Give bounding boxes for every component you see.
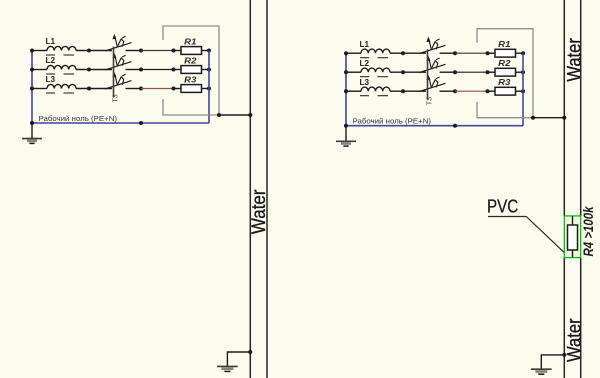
wire block2 L2 switch to node [440, 71, 456, 73]
breaker pole block1 L1: actuator arrow [115, 36, 117, 46]
breaker pole block1 L2: release hook [118, 58, 124, 66]
svg-text:T3: T3 [427, 97, 434, 105]
wire block1 R1 to blue bus [202, 50, 210, 52]
breaker linkage bar block2 [427, 49, 429, 99]
wire block2 L3 mid segment [455, 90, 488, 92]
wire block1 R2 to blue bus [202, 69, 210, 71]
core dash 1 of block1 L2 [46, 73, 55, 75]
junction block1 L3 before resistor [172, 87, 176, 91]
wire block2 bracket to pipe [533, 117, 564, 119]
wire block2 L3 to resistor [488, 90, 496, 92]
junction block2 R3 right [521, 89, 525, 93]
core dash 1 of block2 L3 [360, 95, 369, 97]
svg-text:R4 >100k: R4 >100k [581, 205, 596, 256]
wire block2 L1 to resistor [488, 52, 496, 54]
core dash 2 of block2 L3 [378, 95, 389, 97]
svg-text:L1: L1 [360, 39, 370, 49]
junction block1 L1 at bus [30, 49, 34, 53]
wire block1 row L2 bus to coil [32, 69, 47, 71]
breaker pole block2 L3: blade [419, 83, 446, 91]
ground symbol left pipe [217, 366, 238, 371]
wire block2 L3 coil to switch [390, 90, 426, 92]
svg-text:L2: L2 [360, 58, 370, 68]
junction block2 R2 right [521, 70, 525, 74]
resistor R4 wire bottom [572, 250, 574, 258]
wire block2 L2 coil to switch [390, 71, 426, 73]
svg-text:R1: R1 [498, 40, 511, 49]
breaker pole block2 L3: actuator arrow [429, 77, 431, 87]
junction block1 L2 at bus [30, 68, 34, 72]
breaker pole block2 L2: release hook [432, 61, 438, 69]
core dash 1 of block1 L1 [46, 54, 55, 56]
junction block1 L3 after switch [139, 87, 143, 91]
svg-text:Water: Water [247, 190, 269, 235]
svg-text:Water: Water [563, 38, 585, 82]
core dash 2 of block2 L1 [378, 57, 389, 59]
svg-text:R3: R3 [498, 78, 511, 87]
breaker pole block1 L2: actuator arrow [115, 55, 117, 65]
junction block2 at bracket bottom [531, 116, 535, 120]
core dash 2 of block1 L3 [64, 92, 75, 94]
wire block1 L2 switch to node [126, 69, 142, 71]
junction block1 L1 after switch [139, 49, 143, 53]
resistor block2 R3 [495, 87, 516, 95]
breaker linkage bar block1 [113, 47, 115, 98]
junction block1 L3 coil-switch node [87, 87, 91, 91]
breaker pole block2 L1: actuator arrow [429, 39, 431, 49]
breaker pole block2 L2: blade [419, 64, 446, 72]
junction block1 L1 before resistor [172, 49, 176, 53]
wire block2 R1 to blue bus [516, 52, 524, 54]
ground symbol right pipe [531, 369, 552, 374]
breaker pole block2 L1: release hook [432, 42, 438, 50]
junction block1 R1 right [207, 49, 211, 53]
resistor R4 [568, 225, 578, 250]
wire left pipe to earth [227, 352, 250, 366]
wire block1 L3 switch to node [126, 88, 142, 90]
svg-text:L1: L1 [46, 36, 56, 46]
junction block2 L2 after switch [453, 70, 457, 74]
wire block1 L2 mid segment [141, 69, 174, 71]
breaker pole block1 L3: release hook [118, 77, 124, 85]
junction block2 L2 at bus [344, 70, 348, 74]
neutral rail block1: horizontal [32, 122, 209, 124]
inductor block1 L3 [47, 84, 76, 88]
ground symbol block2 (neutral earth) [336, 126, 356, 146]
wire block2 row L3 bus to coil [346, 90, 361, 92]
resistor block1 R3 [181, 85, 202, 93]
wire block1 L3 mid segment [141, 88, 174, 90]
junction left pipe to earth [248, 350, 252, 354]
svg-text:L2: L2 [46, 55, 56, 65]
wire block1 L1 coil to switch [76, 50, 112, 52]
block1 phase bus (left vertical, neutral net) [31, 51, 33, 124]
PVC insulating section (green) [564, 216, 580, 258]
junction block2 R1 right [521, 51, 525, 55]
wire block1 row L1 bus to coil [32, 50, 47, 52]
svg-text:L3: L3 [360, 77, 370, 87]
breaker pole block2 L1: blade [419, 45, 446, 53]
right water pipe line 1 [563, 0, 565, 216]
breaker pole block1 L3: actuator arrow [115, 74, 117, 84]
shield bracket block1 (gray enclosure) [163, 26, 219, 115]
junction block2 L3 coil-switch node [401, 89, 405, 93]
resistor block1 R1 [181, 47, 202, 55]
wire block2 R2 to blue bus [516, 71, 524, 73]
junction block2 L2 before resistor [486, 70, 490, 74]
breaker pole block2 L3: release hook [432, 80, 438, 88]
junction block2 at pipe [562, 116, 566, 120]
breaker pole block1 L1: blade [105, 43, 132, 51]
core dash 1 of block1 L3 [46, 92, 55, 94]
junction block2 neutral at bus [344, 124, 348, 128]
junction block2 L3 after switch [453, 89, 457, 93]
core dash 1 of block2 L1 [360, 57, 369, 59]
wire block1 L2 to resistor [174, 69, 182, 71]
junction block1 neutral at bus [30, 121, 34, 125]
resistor block1 R2 [181, 66, 202, 74]
wire block2 L2 mid segment [455, 71, 488, 73]
wire block2 row L2 bus to coil [346, 71, 361, 73]
svg-text:R1: R1 [184, 37, 197, 46]
right water pipe line 2 [580, 0, 582, 216]
neutral rail block2: horizontal [346, 125, 523, 127]
junction block2 neutral mid [453, 124, 457, 128]
wire block1 L1 mid segment [141, 50, 174, 52]
junction block2 L1 after switch [453, 51, 457, 55]
junction block1 L2 before resistor [172, 68, 176, 72]
inductor block1 L2 [47, 65, 76, 69]
wire block2 L2 to resistor [488, 71, 496, 73]
wire block1 L2 coil to switch [76, 69, 112, 71]
junction block1 L2 coil-switch node [87, 68, 91, 72]
wire block2 L1 switch to node [440, 52, 456, 54]
junction block2 L1 before resistor [486, 51, 490, 55]
core dash 2 of block1 L1 [64, 54, 75, 56]
block2 phase bus (left vertical, neutral net) [345, 53, 347, 126]
svg-text:Рабочий ноль (PE+N): Рабочий ноль (PE+N) [353, 117, 432, 126]
wire block2 L3 switch to node [440, 90, 456, 92]
svg-text:R2: R2 [498, 59, 511, 68]
breaker pole block1 L1: release hook [118, 39, 124, 47]
resistor block2 R1 [495, 49, 516, 57]
wire block1 L3 coil to switch [76, 88, 112, 90]
neutral rail block1: vertical from R1 down [208, 51, 210, 124]
shield bracket block2 (gray enclosure) [477, 29, 533, 118]
svg-text:R2: R2 [184, 56, 197, 65]
junction block2 L1 coil-switch node [401, 51, 405, 55]
wire block2 R3 to blue bus [516, 90, 524, 92]
junction right pipe to earth [562, 353, 566, 357]
junction block1 R2 right [207, 68, 211, 72]
ground symbol block1 (neutral earth) [22, 123, 42, 143]
core dash 2 of block1 L2 [64, 73, 75, 75]
junction block2 L3 at bus [344, 89, 348, 93]
junction block2 L2 coil-switch node [401, 70, 405, 74]
wire block2 L1 mid segment [455, 52, 488, 54]
wire block1 row L3 bus to coil [32, 88, 47, 90]
inductor block2 L3 [361, 87, 390, 91]
wire block1 L3 to resistor [174, 88, 182, 90]
junction block1 neutral mid [139, 121, 143, 125]
junction block2 L1 at bus [344, 51, 348, 55]
junction block1 L3 at bus [30, 87, 34, 91]
junction block1 at pipe [248, 113, 252, 117]
resistor block2 R2 [495, 68, 516, 76]
junction block1 L2 after switch [139, 68, 143, 72]
wire block1 L1 to resistor [174, 50, 182, 52]
svg-text:Рабочий ноль (PE+N): Рабочий ноль (PE+N) [39, 114, 118, 123]
breaker pole block1 L3: blade [105, 81, 132, 89]
junction block2 L3 before resistor [486, 89, 490, 93]
inductor block2 L2 [361, 68, 390, 72]
wire block1 bracket to pipe [219, 114, 250, 116]
neutral rail block2: vertical from R1 down [522, 53, 524, 126]
breaker pole block1 L2: blade [105, 62, 132, 70]
inductor block2 L1 [361, 49, 390, 53]
wire block1 L1 switch to node [126, 50, 142, 52]
wire block2 row L1 bus to coil [346, 52, 361, 54]
resistor R4 (water section) wire top [572, 216, 574, 225]
svg-text:L3: L3 [46, 74, 56, 84]
wire right pipe to earth [541, 355, 564, 369]
svg-text:R3: R3 [184, 75, 197, 84]
breaker pole block2 L2: actuator arrow [429, 58, 431, 68]
svg-text:T3: T3 [113, 94, 120, 102]
junction block1 R3 right [207, 87, 211, 91]
wire block1 R3 to blue bus [202, 88, 210, 90]
left water pipe line 1 [249, 0, 251, 378]
core dash 1 of block2 L2 [360, 76, 369, 78]
left water pipe line 2 [266, 0, 268, 378]
svg-text:Water: Water [563, 318, 585, 362]
junction block1 at bracket bottom [217, 113, 221, 117]
inductor block1 L1 [47, 46, 76, 50]
PVC leader line [488, 217, 564, 253]
wire block2 L1 coil to switch [390, 52, 426, 54]
core dash 2 of block2 L2 [378, 76, 389, 78]
svg-text:PVC: PVC [487, 195, 518, 216]
junction block1 L1 coil-switch node [87, 49, 91, 53]
